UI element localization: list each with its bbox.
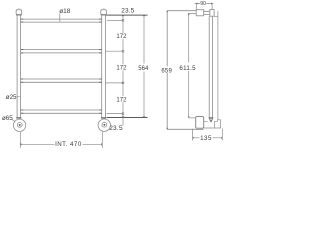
rail end fittings bbox=[21, 19, 102, 113]
ext line INT470 left bbox=[19, 132, 21, 148]
right post bbox=[102, 15, 106, 118]
post top cap (side) bbox=[210, 10, 214, 17]
svg-text:135: 135 bbox=[200, 135, 212, 142]
left caster mount bbox=[16, 117, 21, 118]
leader dia65 bbox=[12, 119, 15, 121]
dim line 90 bbox=[195, 3, 214, 5]
rail plane edge bbox=[217, 11, 219, 120]
rail R1 bbox=[21, 19, 102, 22]
left wheel bbox=[13, 119, 25, 131]
right post cap bbox=[101, 10, 107, 15]
svg-text:172: 172 bbox=[116, 98, 127, 104]
right cap base bbox=[101, 14, 107, 15]
arrowheads INT470 bbox=[20, 143, 102, 146]
rail R3 bbox=[21, 79, 102, 82]
ext line rail4 center bbox=[107, 113, 124, 115]
svg-text:INT. 470: INT. 470 bbox=[55, 141, 82, 148]
leader dia18 bbox=[59, 13, 61, 21]
caster plate (side) bbox=[209, 117, 214, 118]
caster fork wedge bbox=[210, 120, 212, 122]
svg-text:ø25: ø25 bbox=[6, 94, 17, 101]
arrowheads 135 bbox=[193, 137, 223, 140]
svg-text:172: 172 bbox=[116, 34, 127, 40]
leader dia25 bbox=[17, 96, 20, 98]
ext line 135 right bbox=[221, 128, 223, 140]
svg-text:172: 172 bbox=[116, 66, 127, 72]
svg-text:659: 659 bbox=[161, 68, 172, 74]
dim line 135 bbox=[193, 137, 223, 139]
arrowheads dim chain bbox=[121, 15, 145, 117]
svg-text:ø18: ø18 bbox=[59, 8, 71, 15]
side view back edge / 659 dim line bbox=[166, 11, 168, 130]
arrowheads 90 bbox=[196, 2, 212, 5]
arrowheads 611.5 bbox=[188, 13, 190, 118]
dim line 611.5 bbox=[188, 13, 190, 118]
caster bracket bbox=[214, 120, 220, 128]
ext line top (dark) bbox=[106, 14, 147, 16]
right cap nub bbox=[103, 9, 105, 10]
side post bbox=[209, 16, 212, 117]
ext line bottom (dark) bbox=[107, 117, 148, 119]
ext line rail2 center bbox=[106, 50, 123, 52]
dim line INT470 bbox=[20, 143, 102, 145]
svg-text:23.5: 23.5 bbox=[109, 125, 123, 132]
caster fork outline bbox=[209, 119, 213, 122]
caster wheel block (side) bbox=[196, 117, 204, 129]
svg-text:611.5: 611.5 bbox=[179, 65, 196, 72]
right wheel bbox=[98, 119, 110, 131]
left cap base bbox=[16, 14, 22, 15]
svg-text:ø65: ø65 bbox=[2, 115, 13, 122]
right caster mount bbox=[101, 117, 106, 118]
ext line rail1 center bbox=[107, 19, 123, 21]
svg-text:23.5: 23.5 bbox=[121, 8, 134, 15]
left post cap bbox=[16, 10, 22, 15]
left cap nub bbox=[18, 9, 20, 10]
dim 611.5 bottom tick bbox=[189, 117, 196, 119]
cap link tick bbox=[214, 15, 218, 17]
ext line INT470 right bbox=[101, 132, 103, 148]
caster link lines bbox=[204, 121, 215, 128]
dim line 564 bbox=[143, 15, 145, 117]
left post bbox=[17, 15, 21, 118]
ext line 135 left bbox=[192, 129, 194, 141]
rail R2 bbox=[21, 50, 102, 53]
handle joint block bbox=[196, 10, 204, 16]
ext line rail3 center bbox=[106, 82, 123, 84]
caster fork tick bbox=[210, 121, 212, 123]
ext line 90 left bbox=[195, 4, 197, 11]
svg-text:564: 564 bbox=[138, 66, 149, 72]
handle tube bbox=[204, 11, 210, 14]
side view top arm bbox=[167, 11, 196, 14]
arrowheads 659 bbox=[166, 11, 168, 130]
ext line 90 right bbox=[211, 4, 213, 10]
dim line 23.5/172 chain bbox=[122, 15, 124, 125]
rail R4 bbox=[21, 110, 102, 113]
svg-text:90: 90 bbox=[200, 1, 206, 7]
side view base bbox=[167, 128, 203, 130]
